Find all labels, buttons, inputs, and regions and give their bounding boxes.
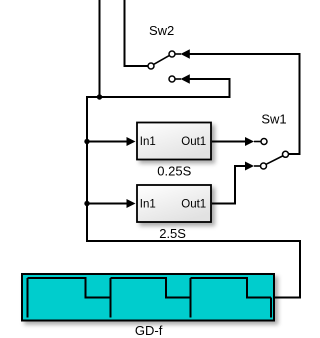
svg-text:Out1: Out1 — [181, 198, 206, 210]
wire — [212, 162, 260, 204]
signal builder block GD-f — [22, 274, 274, 321]
svg-text:GD-f: GD-f — [135, 323, 163, 338]
svg-text:Out1: Out1 — [181, 136, 206, 148]
wire — [87, 96, 300, 298]
svg-text:In1: In1 — [140, 198, 156, 210]
svg-text:In1: In1 — [140, 136, 156, 148]
switch Sw2 — [148, 51, 175, 82]
junction — [97, 94, 102, 99]
waveform — [28, 278, 272, 318]
wire — [212, 137, 261, 146]
subsystem block U2 2.5S — [137, 185, 211, 222]
svg-text:0.25S: 0.25S — [157, 164, 191, 179]
junction — [84, 139, 89, 144]
wire — [99, 0, 101, 97]
subsystem block U1 0.25S — [137, 123, 211, 160]
svg-text:2.5S: 2.5S — [159, 226, 186, 241]
svg-text:Sw1: Sw1 — [261, 112, 286, 127]
wire — [87, 137, 136, 146]
junction — [84, 201, 89, 206]
wire — [175, 49, 299, 154]
switch Sw1 — [261, 139, 289, 170]
wire — [125, 0, 148, 66]
svg-text:Sw2: Sw2 — [149, 23, 174, 38]
wire — [87, 74, 230, 97]
wire — [87, 199, 136, 208]
